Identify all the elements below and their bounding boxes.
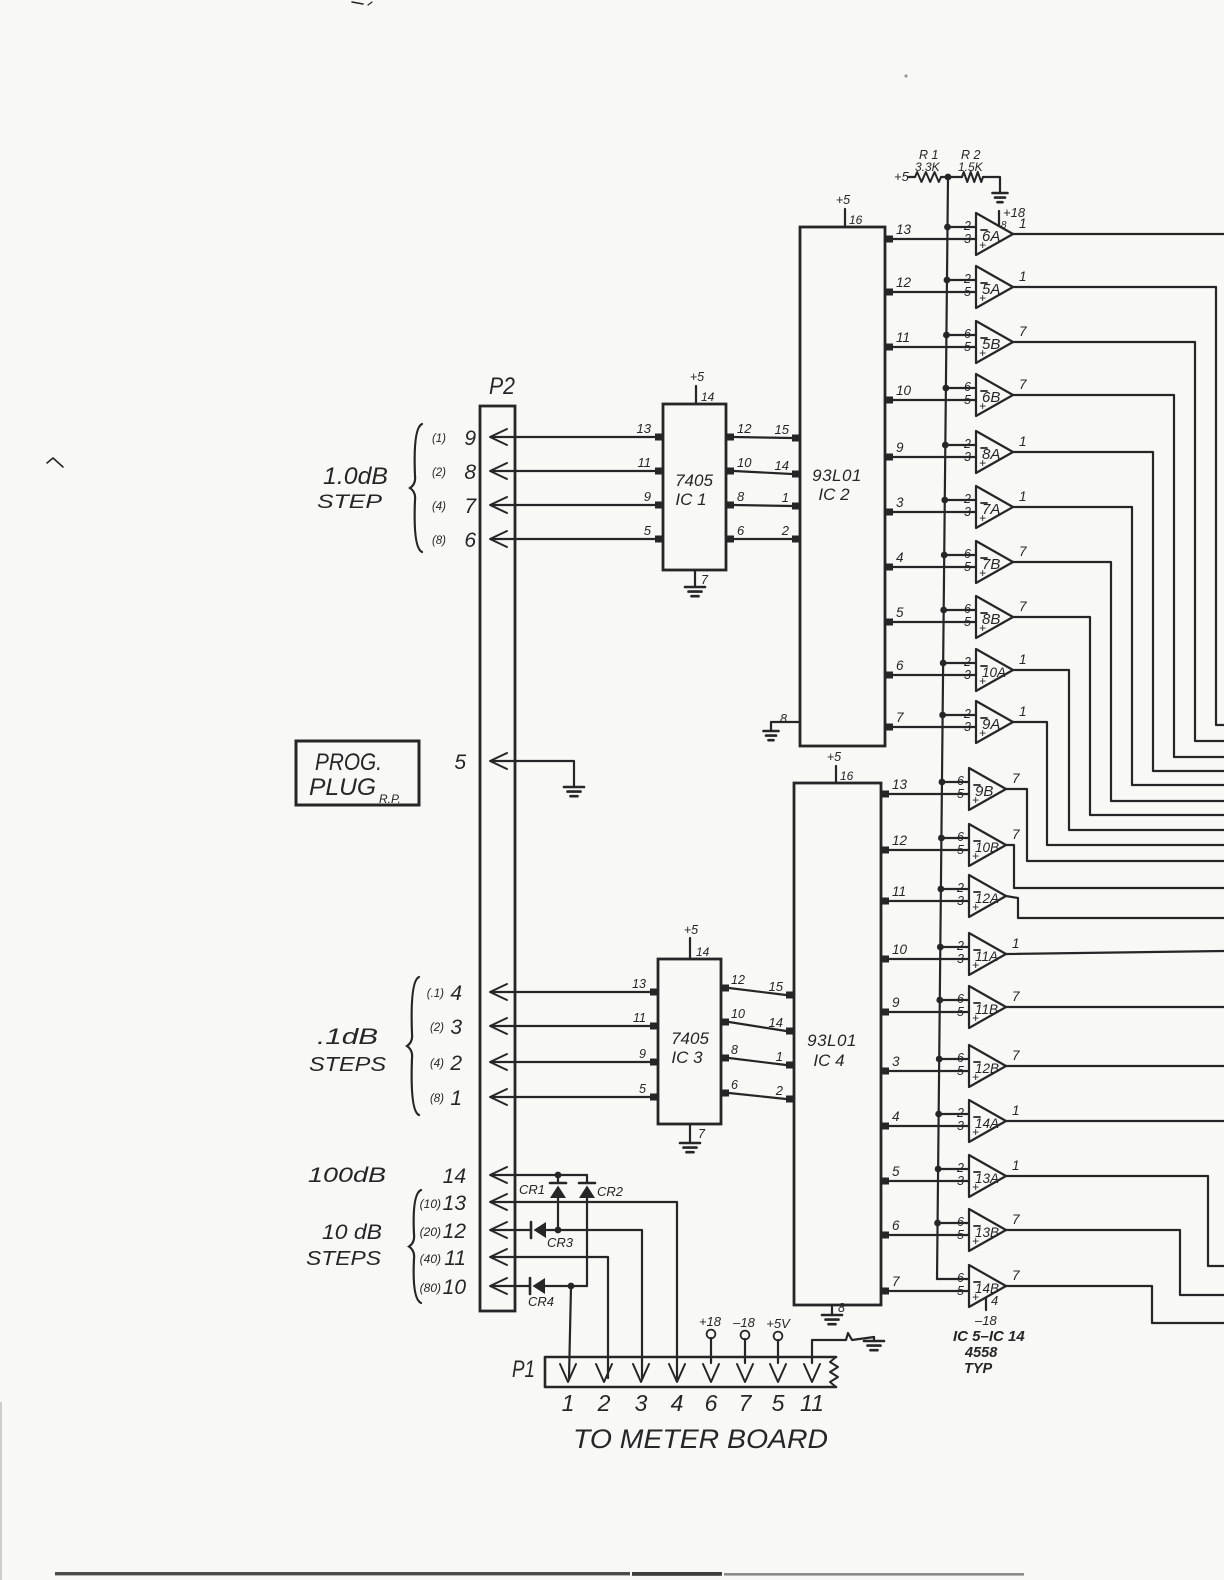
wire 12A input from IC pin xyxy=(889,900,969,902)
IC4 pin 9 xyxy=(880,1009,889,1016)
IC4 pin 13 xyxy=(880,791,889,798)
svg-text:P1: P1 xyxy=(512,1356,535,1383)
svg-text:2: 2 xyxy=(963,219,971,233)
wire IC1 pin 10 to IC2 pin 14 xyxy=(734,471,792,474)
svg-text:(40): (40) xyxy=(420,1252,441,1266)
svg-text:2: 2 xyxy=(956,881,964,895)
svg-text:3: 3 xyxy=(964,232,971,246)
wire IC3 pin 6 to IC4 pin 2 xyxy=(729,1093,786,1099)
IC4 pin 1 nub xyxy=(786,1062,795,1069)
wire bus to 12B pin 6 xyxy=(939,1058,969,1060)
svg-text:6: 6 xyxy=(896,658,904,673)
svg-text:6: 6 xyxy=(964,547,971,561)
svg-text:+5: +5 xyxy=(684,923,698,937)
node pin10 to P1 xyxy=(568,1283,575,1290)
ground P1 pin 11 xyxy=(873,1337,875,1341)
svg-text:12: 12 xyxy=(896,275,912,290)
IC2 pin 9 xyxy=(884,454,893,461)
svg-text:P2: P2 xyxy=(489,373,515,400)
node bus tap 5B xyxy=(943,332,950,339)
wire P2 pin 7 to IC1 xyxy=(492,504,655,506)
op-amp 9B xyxy=(969,768,1006,810)
resistor R2 xyxy=(962,172,983,182)
svg-text:1: 1 xyxy=(776,1049,783,1064)
wire 13A input from IC pin xyxy=(889,1180,969,1182)
P2 pin 4 arrow xyxy=(490,984,507,1000)
IC3 pin 10 xyxy=(720,1019,729,1026)
svg-text:(8): (8) xyxy=(432,535,446,547)
svg-text:11: 11 xyxy=(633,1011,646,1025)
wire IC2 ground xyxy=(771,722,800,731)
svg-text:(2): (2) xyxy=(430,1022,444,1034)
svg-text:11: 11 xyxy=(638,455,652,470)
svg-text:13: 13 xyxy=(637,421,652,436)
IC1 pin 11 xyxy=(655,468,664,475)
wire 8B input from IC pin xyxy=(893,621,976,623)
svg-text:12: 12 xyxy=(443,1220,467,1243)
P1 pin 2 arrow xyxy=(596,1364,612,1382)
8A minus sign xyxy=(981,447,987,449)
svg-text:1: 1 xyxy=(1019,434,1027,449)
connector P2 xyxy=(480,406,515,1311)
svg-text:3: 3 xyxy=(957,1119,964,1133)
wire 6A input from IC pin xyxy=(893,238,976,240)
svg-text:3: 3 xyxy=(964,505,971,519)
terminal +5V xyxy=(774,1332,783,1341)
IC1 pin 6 xyxy=(725,536,734,543)
node bus tap 10A xyxy=(940,660,947,667)
wire IC1 +5 xyxy=(695,386,697,404)
P2 pin 5 arrow xyxy=(490,753,507,769)
wire bus to 10A pin 2 xyxy=(943,662,976,664)
node bus tap 8A xyxy=(942,442,949,449)
wire IC3 pin 10 to IC4 pin 14 xyxy=(729,1022,786,1031)
wire IC3 pin 8 to IC4 pin 1 xyxy=(729,1058,786,1065)
svg-text:16: 16 xyxy=(849,213,863,227)
P1 pin 11 arrow xyxy=(804,1364,820,1382)
svg-text:1: 1 xyxy=(1012,1158,1020,1173)
9B minus sign xyxy=(974,784,980,786)
IC4 pin 7 xyxy=(880,1288,889,1295)
P2 pin 8 arrow xyxy=(490,463,507,479)
svg-text:CR3: CR3 xyxy=(547,1235,574,1250)
brace .1dB group xyxy=(407,977,419,1115)
svg-text:11B: 11B xyxy=(975,1002,998,1017)
wire 12B input from IC pin xyxy=(889,1070,969,1072)
12B minus sign xyxy=(974,1061,980,1063)
svg-text:3: 3 xyxy=(450,1016,462,1039)
svg-text:11A: 11A xyxy=(975,949,998,964)
wire 8B output xyxy=(1013,617,1224,815)
svg-text:–18: –18 xyxy=(732,1315,755,1330)
P2 pin 2 arrow xyxy=(490,1054,507,1070)
wire 14A output xyxy=(1006,1120,1224,1122)
svg-text:3: 3 xyxy=(964,720,971,734)
svg-text:1: 1 xyxy=(562,1390,575,1416)
svg-text:6: 6 xyxy=(964,380,971,394)
wire P2 pin 10 segment xyxy=(492,1285,530,1287)
brace 10dB group xyxy=(409,1190,421,1303)
svg-text:15: 15 xyxy=(769,979,784,994)
svg-text:10 dB: 10 dB xyxy=(322,1221,382,1244)
svg-text:CR1: CR1 xyxy=(519,1182,545,1197)
wire P2 pin 2 to IC3 xyxy=(492,1061,650,1063)
wire 13B output xyxy=(1006,1230,1224,1295)
svg-text:4: 4 xyxy=(896,550,904,565)
P1 pin 7 arrow xyxy=(737,1364,753,1382)
svg-text:PROG.: PROG. xyxy=(315,749,382,776)
svg-text:6: 6 xyxy=(731,1078,738,1092)
svg-text:6: 6 xyxy=(464,529,476,552)
svg-text:STEPS: STEPS xyxy=(306,1248,382,1270)
svg-text:10B: 10B xyxy=(975,840,999,855)
IC4 pin 5 xyxy=(880,1178,889,1185)
svg-text:1.0dB: 1.0dB xyxy=(323,463,388,490)
svg-text:6: 6 xyxy=(957,992,964,1006)
node bus tap 6B xyxy=(942,385,949,392)
svg-text:5: 5 xyxy=(964,615,971,629)
wire P2 pin 3 to IC3 xyxy=(492,1025,650,1027)
node bus tap 5A xyxy=(944,277,951,284)
6A minus sign xyxy=(981,229,987,231)
svg-text:8A: 8A xyxy=(982,446,1000,463)
ground R2 xyxy=(993,192,1008,195)
svg-text:8: 8 xyxy=(1001,220,1007,231)
svg-text:TO METER BOARD: TO METER BOARD xyxy=(573,1424,828,1454)
svg-text:7405: 7405 xyxy=(671,1029,709,1048)
wire 7B output xyxy=(1013,562,1224,801)
svg-text:3: 3 xyxy=(896,495,904,510)
IC4 pin 2 nub xyxy=(786,1096,795,1103)
svg-text:14: 14 xyxy=(701,390,715,404)
svg-text:3: 3 xyxy=(892,1054,900,1069)
svg-text:1: 1 xyxy=(1019,704,1027,719)
svg-text:6: 6 xyxy=(737,523,745,538)
svg-text:IC 3: IC 3 xyxy=(671,1048,703,1067)
svg-text:2: 2 xyxy=(597,1390,611,1416)
svg-text:8: 8 xyxy=(737,489,745,504)
IC U1 7405 xyxy=(663,404,726,570)
svg-text:6: 6 xyxy=(957,774,964,788)
svg-text:2: 2 xyxy=(956,1106,964,1120)
9A minus sign xyxy=(981,717,987,719)
op-amp 11B xyxy=(969,986,1006,1028)
P2 pin 14 arrow xyxy=(490,1167,507,1183)
wire 14A input from IC pin xyxy=(889,1125,969,1127)
svg-text:2: 2 xyxy=(956,939,964,953)
svg-text:7: 7 xyxy=(892,1274,900,1289)
svg-text:6A: 6A xyxy=(982,228,1000,245)
svg-text:(20): (20) xyxy=(420,1225,441,1239)
IC1 pin 8 xyxy=(725,502,734,509)
wire bus to 14A pin 2 xyxy=(939,1113,969,1115)
op-amp 5A xyxy=(976,266,1013,308)
IC4 pin 11 xyxy=(880,898,889,905)
IC3 pin 9 xyxy=(650,1059,659,1066)
wire 12A output xyxy=(1006,896,1224,918)
svg-text:1: 1 xyxy=(1012,936,1020,951)
wire 10B output xyxy=(1006,845,1224,888)
svg-text:7: 7 xyxy=(1012,771,1020,786)
svg-text:11: 11 xyxy=(896,330,910,345)
wire bus to 8A pin 2 xyxy=(945,444,976,446)
svg-text:IC 4: IC 4 xyxy=(813,1051,844,1070)
svg-text:15: 15 xyxy=(775,422,790,437)
svg-text:(.1): (.1) xyxy=(427,988,444,1000)
svg-text:5A: 5A xyxy=(982,281,1000,298)
wire bus to 5A pin 2 xyxy=(947,279,976,281)
node bus tap 9B xyxy=(939,779,946,786)
svg-text:10: 10 xyxy=(443,1276,467,1299)
P2 pin 13 arrow xyxy=(490,1194,507,1210)
svg-text:10: 10 xyxy=(731,1007,745,1021)
wire P2 pin 8 to IC1 xyxy=(492,470,655,472)
svg-text:8: 8 xyxy=(780,712,787,726)
wire 9B input from IC pin xyxy=(889,793,969,795)
node bus tap 9A xyxy=(939,712,946,719)
IC2 pin 11 xyxy=(884,344,893,351)
op-amp 8A xyxy=(976,431,1013,473)
svg-text:5: 5 xyxy=(454,751,466,774)
IC4 pin 10 xyxy=(880,956,889,963)
wire 9B output xyxy=(1006,789,1224,861)
svg-text:9A: 9A xyxy=(982,716,1000,733)
svg-text:1: 1 xyxy=(1019,652,1027,667)
P2 pin 12 arrow xyxy=(490,1222,507,1238)
wire 7A input from IC pin xyxy=(893,511,976,513)
IC U3 7405 xyxy=(658,959,721,1124)
svg-text:100dB: 100dB xyxy=(308,1164,386,1187)
svg-text:11: 11 xyxy=(444,1247,466,1270)
svg-text:6: 6 xyxy=(705,1390,718,1416)
node bus tap 13A xyxy=(935,1166,942,1173)
10B minus sign xyxy=(974,840,980,842)
svg-text:1: 1 xyxy=(782,490,789,505)
node bus tap 6A xyxy=(944,224,951,231)
8B minus sign xyxy=(981,612,987,614)
svg-text:7: 7 xyxy=(1019,377,1027,392)
wire 10B input from IC pin xyxy=(889,849,969,851)
svg-text:2: 2 xyxy=(963,707,971,721)
svg-text:1: 1 xyxy=(1019,269,1027,284)
svg-text:2: 2 xyxy=(781,523,790,538)
svg-text:6: 6 xyxy=(964,602,971,616)
op-amp 14A xyxy=(969,1100,1006,1142)
wire 5B input from IC pin xyxy=(893,346,976,348)
5A minus sign xyxy=(981,282,987,284)
svg-text:7: 7 xyxy=(1012,1212,1020,1227)
svg-text:5: 5 xyxy=(957,1228,964,1242)
IC2 pin 13 xyxy=(884,236,893,243)
wire 7A output xyxy=(1013,507,1224,785)
IC1 pin 10 xyxy=(725,468,734,475)
wire R1-R2 xyxy=(941,176,962,178)
svg-text:2: 2 xyxy=(449,1052,462,1075)
ground IC1 xyxy=(685,586,705,589)
svg-text:6B: 6B xyxy=(982,389,1000,406)
svg-text:+5: +5 xyxy=(836,193,850,207)
wire 5A input from IC pin xyxy=(893,291,976,293)
svg-text:7: 7 xyxy=(1019,599,1027,614)
wire IC1 pin 12 to IC2 pin 15 xyxy=(734,437,792,438)
svg-text:–18: –18 xyxy=(974,1313,997,1328)
svg-text:1: 1 xyxy=(1019,489,1027,504)
svg-text:4: 4 xyxy=(892,1109,900,1124)
svg-text:11: 11 xyxy=(800,1390,824,1416)
svg-text:12: 12 xyxy=(731,973,745,987)
IC2 pin 3 xyxy=(884,509,893,516)
brace 1.0dB group xyxy=(410,424,422,552)
svg-text:7A: 7A xyxy=(982,501,1000,518)
svg-text:4: 4 xyxy=(450,982,462,1005)
wire P1 pin 11 to ground xyxy=(812,1333,874,1363)
IC4 pin 4 xyxy=(880,1123,889,1130)
wire 11B input from IC pin xyxy=(889,1011,969,1013)
svg-text:6: 6 xyxy=(957,830,964,844)
wire 6B input from IC pin xyxy=(893,399,976,401)
op-amp 8B xyxy=(976,596,1013,638)
svg-text:3.3K: 3.3K xyxy=(915,160,941,174)
wire bus end to 14B xyxy=(937,1278,969,1280)
IC4 pin 3 xyxy=(880,1068,889,1075)
wire P2 pin 4 to IC3 xyxy=(492,991,650,993)
svg-text:TYP: TYP xyxy=(964,1361,993,1377)
wire CR3 to P1 pin 3 xyxy=(546,1230,642,1378)
wire 13A output xyxy=(1006,1176,1224,1266)
IC3 pin 13 xyxy=(650,989,659,996)
svg-text:6: 6 xyxy=(957,1051,964,1065)
svg-text:5: 5 xyxy=(957,787,964,801)
wire 5A output xyxy=(1013,287,1224,725)
wire bus to 8B pin 6 xyxy=(944,609,976,611)
svg-text:10: 10 xyxy=(892,942,908,957)
wire IC1 ground xyxy=(694,570,696,587)
diode CR1 xyxy=(557,1175,559,1183)
ground pin5 xyxy=(564,786,584,789)
box PROG PLUG xyxy=(296,741,419,805)
wire 14B output xyxy=(1006,1286,1224,1323)
P2 pin 10 arrow xyxy=(490,1278,507,1294)
wire P2 pin 1 to IC3 xyxy=(492,1096,650,1098)
svg-text:7: 7 xyxy=(464,495,477,518)
svg-text:5: 5 xyxy=(896,605,904,620)
svg-text:13: 13 xyxy=(632,977,646,991)
svg-text:8: 8 xyxy=(838,1301,845,1315)
svg-text:(2): (2) xyxy=(432,467,446,479)
IC4 pin 12 xyxy=(880,847,889,854)
node bus tap 12A xyxy=(937,886,944,893)
P1 pin 5 arrow xyxy=(770,1364,786,1382)
svg-text:16: 16 xyxy=(840,769,854,783)
svg-text:3: 3 xyxy=(957,952,964,966)
svg-text:5: 5 xyxy=(957,1064,964,1078)
11B minus sign xyxy=(974,1002,980,1004)
wire 6A +18 pin xyxy=(998,211,1000,226)
op-amp 5B xyxy=(976,321,1013,363)
svg-text:3: 3 xyxy=(964,668,971,682)
svg-text:+5: +5 xyxy=(690,370,704,384)
wire bus to 6A pin 2 xyxy=(947,226,976,228)
wire node to P1 pin 1 xyxy=(569,1286,571,1378)
svg-text:2: 2 xyxy=(963,272,971,286)
svg-text:8: 8 xyxy=(464,461,476,484)
svg-text:9: 9 xyxy=(464,427,476,450)
svg-text:9: 9 xyxy=(892,995,900,1010)
svg-text:1: 1 xyxy=(1012,1103,1020,1118)
svg-text:9: 9 xyxy=(644,489,651,504)
wire bus to 11A pin 2 xyxy=(940,946,969,948)
node CR1 bottom xyxy=(555,1227,562,1234)
svg-text:(10): (10) xyxy=(420,1197,441,1211)
svg-text:9: 9 xyxy=(896,440,904,455)
wire P2 pin 9 to IC1 xyxy=(492,436,655,438)
wire bus to 13B pin 6 xyxy=(938,1222,969,1224)
op-amp 7B xyxy=(976,541,1013,583)
svg-text:3: 3 xyxy=(957,1174,964,1188)
svg-text:CR2: CR2 xyxy=(597,1184,624,1199)
op-amp 9A xyxy=(976,701,1013,743)
ground IC3 xyxy=(680,1142,700,1145)
wire IC3 +5 xyxy=(689,938,691,959)
P1 pin 6 arrow xyxy=(703,1364,719,1382)
svg-text:10: 10 xyxy=(896,383,912,398)
13A minus sign xyxy=(974,1171,980,1173)
wire P2 pin 14 to CR2 xyxy=(492,1174,587,1176)
ground IC2 xyxy=(764,730,779,733)
7B minus sign xyxy=(981,557,987,559)
IC4 pin 15 nub xyxy=(786,992,795,999)
IC2 pin 1 nub xyxy=(792,503,801,510)
svg-text:93L01: 93L01 xyxy=(812,466,862,485)
svg-text:(80): (80) xyxy=(420,1281,441,1295)
svg-text:3: 3 xyxy=(635,1390,648,1416)
svg-text:(4): (4) xyxy=(430,1058,444,1070)
IC U2 93L01 xyxy=(800,227,885,746)
wire P2 pin 5 to ground xyxy=(492,761,574,787)
op-amp 10B xyxy=(969,824,1006,866)
svg-text:STEPS: STEPS xyxy=(309,1054,387,1076)
wire P2 pin 11 to P1 pin 2 xyxy=(492,1257,608,1378)
node bus tap 11B xyxy=(936,997,943,1004)
svg-text:+5V: +5V xyxy=(766,1316,791,1331)
IC1 pin 12 xyxy=(725,434,734,441)
IC1 pin 5 xyxy=(655,536,664,543)
7A minus sign xyxy=(981,502,987,504)
svg-text:5: 5 xyxy=(644,523,652,538)
svg-text:+5: +5 xyxy=(827,750,841,764)
12A minus sign xyxy=(974,891,980,893)
svg-text:8: 8 xyxy=(731,1043,738,1057)
svg-text:.1dB: .1dB xyxy=(317,1024,378,1049)
svg-text:3: 3 xyxy=(957,894,964,908)
IC3 pin 5 xyxy=(650,1094,659,1101)
svg-text:14: 14 xyxy=(775,458,789,473)
P2 pin 1 arrow xyxy=(490,1089,507,1105)
IC3 pin 12 xyxy=(720,985,729,992)
node bus tap 10B xyxy=(938,835,945,842)
svg-text:7: 7 xyxy=(896,710,904,725)
svg-text:7: 7 xyxy=(1012,989,1020,1004)
wire 8A input from IC pin xyxy=(893,456,976,458)
svg-text:7: 7 xyxy=(1012,1268,1020,1283)
scan edge left xyxy=(0,1402,2,1580)
svg-text:+18: +18 xyxy=(1003,205,1026,220)
wire 10A input from IC pin xyxy=(893,674,976,676)
svg-text:6: 6 xyxy=(957,1215,964,1229)
wire bus to 10B pin 6 xyxy=(941,837,969,839)
svg-text:13: 13 xyxy=(443,1192,467,1215)
node bus tap 8B xyxy=(940,607,947,614)
